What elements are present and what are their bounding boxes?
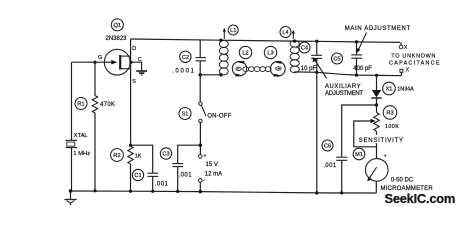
wire C3 branch xyxy=(178,145,201,163)
node C1 rail xyxy=(151,190,154,193)
wire R1 branch upper xyxy=(94,62,96,95)
svg-text:C4: C4 xyxy=(301,46,308,52)
wire switch to battery junction xyxy=(199,123,201,155)
wire gate lead xyxy=(72,61,115,63)
svg-text:R1: R1 xyxy=(77,102,84,108)
resistor R1 470K xyxy=(75,96,115,113)
node R2 rail xyxy=(129,190,132,193)
wire meter bottom xyxy=(375,181,377,193)
svg-text:C6: C6 xyxy=(324,144,331,150)
svg-text:D: D xyxy=(132,46,136,52)
svg-text:S: S xyxy=(132,79,136,85)
svg-text:AUXILIARY: AUXILIARY xyxy=(325,84,361,90)
svg-text:+: + xyxy=(384,154,387,160)
inductor L4 xyxy=(280,27,299,73)
node C5 bottom xyxy=(355,74,358,77)
battery terminal plus xyxy=(199,153,223,184)
wire C3 lower xyxy=(177,167,179,192)
svg-text:.0001: .0001 xyxy=(172,69,196,75)
wire C1 branch xyxy=(131,145,153,173)
svg-text:15 V: 15 V xyxy=(206,162,218,168)
wire L4 slug arrow xyxy=(292,30,295,39)
node tank junction xyxy=(199,73,202,76)
svg-text:X1: X1 xyxy=(386,87,393,93)
crystal XTAL 1 MHz xyxy=(66,133,91,157)
node L4 top xyxy=(293,39,296,42)
inductor L3 coupling loop xyxy=(264,46,285,77)
capacitor C3 .001 xyxy=(160,148,192,179)
svg-text:0-50 DC: 0-50 DC xyxy=(391,178,414,184)
svg-text:MAIN ADJUSTMENT: MAIN ADJUSTMENT xyxy=(345,26,411,32)
wire L1 bottom link xyxy=(200,74,221,76)
node battery junction xyxy=(199,144,202,147)
svg-text:-: - xyxy=(203,178,205,184)
capacitor C4 10 pF trimmer xyxy=(299,42,322,72)
svg-text:C2: C2 xyxy=(182,55,189,61)
capacitor C6 .001 xyxy=(322,140,347,169)
svg-text:ON-OFF: ON-OFF xyxy=(207,114,231,120)
svg-text:R3: R3 xyxy=(386,111,393,117)
label sensitivity xyxy=(358,135,404,143)
wire auxiliary pointer arrow xyxy=(313,57,327,79)
node diode bottom junction xyxy=(375,103,378,106)
wire R1 branch lower xyxy=(94,113,96,191)
svg-text:Q1: Q1 xyxy=(114,23,121,29)
transistor Q1 2N3823 xyxy=(98,19,142,85)
svg-text:M1: M1 xyxy=(355,152,363,158)
node tank bottom-net corner xyxy=(315,71,318,74)
node L1 bottom xyxy=(219,73,222,76)
wire top rail xyxy=(131,39,400,42)
wire L4 bottom net xyxy=(295,72,402,76)
wire R2 lower xyxy=(130,164,132,191)
svg-text:S1: S1 xyxy=(182,112,189,118)
wire main adjustment pointer arrow xyxy=(356,33,367,53)
svg-text:470K: 470K xyxy=(100,102,115,108)
node case junction xyxy=(129,61,132,64)
node diode top xyxy=(375,74,378,77)
svg-text:.001: .001 xyxy=(179,173,193,179)
svg-text:XTAL: XTAL xyxy=(74,133,89,139)
terminal X lower xyxy=(400,67,410,75)
node R2 top / C1 branch xyxy=(129,144,132,147)
node battery rail xyxy=(199,190,202,193)
wire C5 lower xyxy=(356,58,358,75)
wire C4 lower and ground drop xyxy=(316,58,318,193)
node C5 top xyxy=(355,40,358,43)
svg-text:1N34A: 1N34A xyxy=(397,86,414,92)
resistor R2 1K xyxy=(111,146,142,164)
svg-text:X: X xyxy=(404,45,408,51)
svg-text:X: X xyxy=(406,67,410,73)
wire coupling chain xyxy=(243,67,271,72)
svg-text:1 MHz: 1 MHz xyxy=(73,151,90,157)
svg-text:100K: 100K xyxy=(385,124,399,130)
ground xyxy=(64,191,76,204)
svg-text:G: G xyxy=(98,55,102,61)
svg-text:L3: L3 xyxy=(267,51,273,57)
svg-text:SeekIC.com: SeekIC.com xyxy=(385,191,456,206)
wire xtal branch lower xyxy=(71,148,73,191)
wire C6 lower xyxy=(341,160,343,193)
svg-text:R2: R2 xyxy=(113,153,120,159)
svg-text:10 pF: 10 pF xyxy=(301,66,317,72)
wire to C6 xyxy=(342,105,377,157)
svg-text:.001: .001 xyxy=(155,181,169,187)
wire drain/source vertical xyxy=(130,39,132,146)
svg-text:C5: C5 xyxy=(333,57,340,63)
node C3 rail xyxy=(176,190,179,193)
svg-text:L1: L1 xyxy=(230,28,236,34)
node xtal rail xyxy=(69,189,72,192)
node tank ground rail xyxy=(315,191,318,194)
svg-text:SENSITIVITY: SENSITIVITY xyxy=(359,138,404,144)
inductor L2 coupling loop xyxy=(232,46,251,76)
svg-text:+: + xyxy=(203,153,206,159)
wire C2 drop from rail xyxy=(199,40,201,58)
wire C4 drop xyxy=(316,41,318,55)
svg-text:ADJUSTMENT: ADJUSTMENT xyxy=(325,91,363,97)
capacitor C5 400 pF variable xyxy=(332,53,373,72)
capacitor C1 .001 xyxy=(132,169,168,187)
meter M1 0-50 DC microammeter xyxy=(353,148,388,181)
wire C2 to switch xyxy=(199,61,201,102)
wire case lead xyxy=(131,62,142,70)
wire R3 wiper xyxy=(354,119,377,147)
wire C5 drop xyxy=(356,42,358,55)
node gate junction xyxy=(93,61,96,64)
node R1 rail xyxy=(93,189,96,192)
svg-text:1K: 1K xyxy=(135,154,142,160)
svg-text:L4: L4 xyxy=(282,30,288,36)
capacitor C2 .0001 xyxy=(172,51,206,75)
node C6 rail xyxy=(340,191,343,194)
svg-text:C3: C3 xyxy=(162,152,169,158)
node C4 top xyxy=(315,40,318,43)
switch S1 on-off xyxy=(179,102,232,123)
resistor R3 100K potentiometer xyxy=(374,105,399,159)
wire xtal branch upper xyxy=(71,62,73,140)
wire C1 lower xyxy=(152,176,154,191)
wire L1 slug arrow xyxy=(223,28,226,39)
wire battery minus to rail xyxy=(199,182,201,191)
terminal X upper xyxy=(399,42,408,51)
svg-text:L2: L2 xyxy=(242,51,248,57)
svg-text:CAPACITANCE: CAPACITANCE xyxy=(389,61,441,67)
diode X1 1N34A xyxy=(371,75,414,105)
inductor L1 xyxy=(219,25,238,75)
node L1 top xyxy=(219,39,222,42)
svg-text:C1: C1 xyxy=(134,173,141,179)
svg-text:.001: .001 xyxy=(323,163,337,169)
wire bottom ground rail xyxy=(71,191,377,193)
svg-text:12 mA: 12 mA xyxy=(205,171,222,177)
ground case xyxy=(136,71,147,75)
svg-text:2N3823: 2N3823 xyxy=(106,36,128,42)
svg-text:TO UNKNOWN: TO UNKNOWN xyxy=(391,54,436,60)
